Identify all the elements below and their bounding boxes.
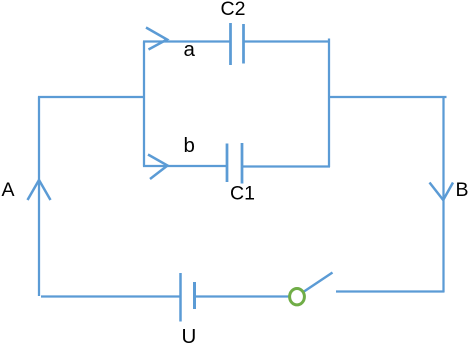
battery U xyxy=(181,273,195,322)
wire middle-left horizontal xyxy=(38,96,145,98)
wire top branch left segment (node a) xyxy=(143,40,230,42)
svg-text:a: a xyxy=(184,38,196,61)
svg-text:A: A xyxy=(2,179,15,201)
arrow on branch a xyxy=(146,28,167,50)
wire bottom branch right segment xyxy=(243,165,330,167)
wire bottom-left horizontal xyxy=(41,295,180,297)
wire inner-left vertical xyxy=(143,42,145,167)
arrow A (upward) xyxy=(28,180,51,200)
capacitor C2 xyxy=(231,23,244,65)
svg-text:B: B xyxy=(456,179,469,201)
svg-text:C1: C1 xyxy=(230,183,255,205)
wire battery to switch xyxy=(196,295,289,297)
arrow on branch b xyxy=(148,155,168,180)
svg-text:b: b xyxy=(184,134,195,157)
wire outer-right vertical (node B branch) xyxy=(442,97,444,293)
svg-text:U: U xyxy=(182,325,197,345)
wire outer-left vertical (node A branch) xyxy=(38,97,40,297)
switch lever xyxy=(304,273,333,292)
wire bottom branch left segment (node b) xyxy=(143,165,226,167)
arrow B (downward) xyxy=(430,183,454,201)
wire bottom-right horizontal xyxy=(336,290,444,292)
capacitor C1 xyxy=(227,143,242,184)
svg-text:C2: C2 xyxy=(221,0,246,20)
wire top branch right segment xyxy=(245,40,331,42)
wire inner-right vertical xyxy=(328,39,330,168)
switch pivot contact xyxy=(290,289,305,305)
wire middle-right horizontal xyxy=(329,96,447,98)
